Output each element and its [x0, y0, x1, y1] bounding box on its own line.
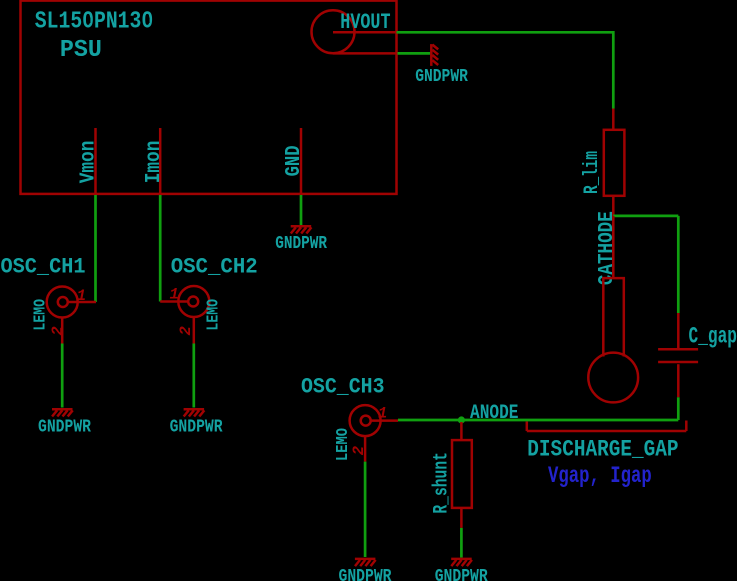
ground GNDPWR (under GND pin) [291, 226, 312, 233]
svg-text:PSU: PSU [60, 37, 102, 64]
svg-text:Vgap, Igap: Vgap, Igap [548, 463, 652, 489]
svg-text:OSC_CH3: OSC_CH3 [301, 374, 385, 399]
wire R_shunt to ground [460, 528, 463, 558]
svg-text:OSC_CH2: OSC_CH2 [171, 255, 258, 280]
svg-text:GNDPWR: GNDPWR [275, 234, 327, 254]
svg-text:GNDPWR: GNDPWR [170, 418, 223, 438]
ground GNDPWR (R_shunt) [451, 559, 472, 566]
svg-text:Vmon: Vmon [78, 141, 101, 184]
svg-text:C_gap: C_gap [689, 324, 737, 350]
svg-text:DISCHARGE_GAP: DISCHARGE_GAP [527, 437, 678, 463]
pin GND [300, 128, 303, 194]
wire cathode node to C_gap, horizontal [613, 215, 678, 218]
svg-text:GNDPWR: GNDPWR [435, 567, 488, 581]
svg-text:R_shunt: R_shunt [431, 452, 454, 514]
wire Imon down [159, 195, 162, 302]
svg-text:R_lim: R_lim [581, 151, 604, 194]
svg-text:2: 2 [49, 326, 67, 335]
wire HV return to ground [398, 52, 431, 55]
svg-text:HVOUT: HVOUT [340, 10, 390, 35]
spark gap anode plate [527, 421, 687, 432]
wire J3 pin2 to ground [364, 462, 367, 557]
capacitor C_gap [658, 313, 698, 397]
svg-text:LEMO: LEMO [333, 428, 352, 461]
wire GND down [300, 195, 303, 226]
svg-text:2: 2 [177, 326, 195, 335]
wire ANODE node to C_gap bottom [461, 419, 678, 422]
svg-text:Imon: Imon [143, 141, 166, 184]
wire J2 pin2 to ground [192, 344, 195, 408]
svg-text:SL150PN130: SL150PN130 [35, 9, 153, 36]
wire HVOUT horizontal [397, 31, 614, 34]
svg-text:2: 2 [350, 446, 368, 455]
resistor R_shunt [452, 422, 472, 528]
connector J1 OSC_CH1 (LEMO) [47, 287, 96, 344]
svg-text:OSC_CH1: OSC_CH1 [1, 255, 86, 280]
junction ANODE [458, 416, 465, 423]
svg-text:1: 1 [170, 286, 179, 304]
PSU box U1 SL150PN130 [21, 1, 397, 194]
svg-text:LEMO: LEMO [30, 299, 49, 331]
wire J1 pin2 to ground [61, 344, 64, 408]
ground GNDPWR (J1) [52, 409, 73, 416]
connector J2 OSC_CH2 (LEMO, mirrored) [160, 286, 209, 344]
svg-text:1: 1 [77, 287, 86, 305]
svg-text:GNDPWR: GNDPWR [38, 418, 91, 438]
connector J3 OSC_CH3 (LEMO) [350, 405, 398, 462]
pin Imon [159, 128, 162, 194]
wire J3 pin1 to ANODE node [398, 419, 461, 422]
ground GNDPWR (J3) [355, 559, 376, 566]
wire HVOUT vertical down to R_lim [612, 31, 615, 109]
wire C_gap bottom [677, 397, 680, 420]
pin HVOUT (circle bubble) [312, 10, 397, 53]
wire C_gap top, vertical [677, 216, 680, 313]
svg-text:ANODE: ANODE [470, 402, 519, 425]
wire Vmon down [94, 195, 97, 302]
ground GNDPWR (J2) [184, 409, 205, 416]
resistor R_lim [604, 109, 625, 217]
svg-text:LEMO: LEMO [204, 299, 223, 331]
svg-text:GNDPWR: GNDPWR [415, 67, 468, 87]
spark gap DISCHARGE_GAP cathode electrode [588, 216, 638, 402]
svg-text:GNDPWR: GNDPWR [339, 567, 392, 581]
ground GNDPWR (right-pointing) [431, 44, 438, 66]
pin Vmon [94, 128, 97, 194]
svg-text:CATHODE: CATHODE [596, 211, 619, 285]
svg-text:GND: GND [283, 145, 306, 176]
svg-text:1: 1 [378, 405, 387, 423]
